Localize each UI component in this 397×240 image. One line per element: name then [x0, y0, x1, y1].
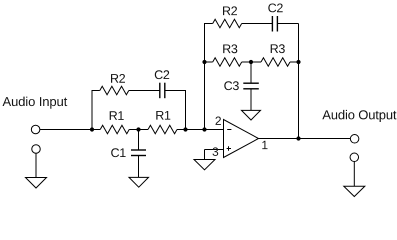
ground: below C1	[129, 177, 149, 187]
value label C1	[111, 148, 125, 157]
resistor R1 (first)	[100, 125, 129, 133]
wire: input terminal to node at R2/R1 left (net IN)	[40, 129, 100, 131]
ground: output side	[344, 186, 365, 196]
label: Audio Output	[322, 110, 396, 122]
wire: node E to R3a	[205, 61, 213, 63]
value label C2 (left loop)	[155, 70, 169, 79]
wire: feedback loop right vertical down to output node	[298, 24, 300, 139]
wire: R3b to node G	[290, 61, 299, 63]
op-amp U1	[224, 120, 259, 158]
capacitor C2 (feedback loop)	[272, 16, 277, 32]
resistor R1 (second)	[148, 125, 177, 133]
wire: node F down to C3	[250, 62, 252, 83]
node D: junction at op-amp pin 2 with feedback network	[202, 127, 206, 131]
value label R1 (second)	[156, 111, 170, 120]
wire: C2 right plate to loop2 top right corner	[277, 23, 298, 25]
wire: pin 3 down to ground	[204, 150, 206, 160]
ground: below C3	[242, 110, 261, 120]
output terminal J2	[350, 135, 359, 144]
ground return terminal (output side)	[350, 153, 359, 162]
op-amp minus sign (inverting input marker)	[227, 129, 231, 131]
input terminal J1	[31, 125, 40, 134]
wire: output ground terminal down	[353, 162, 355, 187]
ground return terminal (input side)	[32, 145, 41, 154]
node H: junction of output wire and feedback right vertical	[296, 136, 300, 140]
resistor R2 (feedback loop)	[213, 19, 242, 27]
wire: R1 to R1 through node B	[129, 129, 148, 131]
wire: C2 right plate to loop1 right corner	[165, 90, 186, 92]
wire: C1 bottom plate to ground	[138, 156, 140, 178]
resistor R2 (left loop)	[100, 86, 129, 94]
wire: R3a to R3b through node F	[242, 61, 261, 63]
node G: junction of R3b right and loop right vertical	[296, 60, 300, 64]
node F: junction between R3 pair and C3	[249, 60, 253, 64]
capacitor C3	[243, 83, 258, 89]
wire: loop1 top, node A up-corner to R2 left	[92, 90, 100, 92]
ground: at op-amp non-inverting input	[194, 160, 215, 170]
capacitor C2 (left loop)	[160, 83, 165, 99]
wire: right vertical of R2/C2 bypass loop	[185, 90, 187, 130]
wire: R2 right to C2 left plate (top loop)	[242, 23, 273, 25]
ground: input side	[26, 178, 47, 189]
value label R2 (feedback loop)	[223, 6, 237, 15]
wire: op-amp pin 3 stub	[205, 149, 224, 151]
pin number 2 (inverting input)	[216, 117, 221, 125]
wire: op-amp output to output terminal (net OUT)	[259, 138, 351, 140]
pin number 1 (output)	[262, 141, 267, 149]
wire: feedback loop left vertical (node D up to R3 wire and top)	[204, 24, 206, 130]
value label R3 (first)	[223, 44, 237, 53]
resistor R3 (first)	[213, 58, 242, 66]
wire: R2 right to C2 left plate	[129, 90, 160, 92]
wire: C3 bottom plate to ground	[250, 89, 252, 111]
value label R3 (second)	[271, 44, 285, 53]
wire: C1 top, node B down to C1 plate	[138, 130, 140, 151]
value label C3	[224, 81, 239, 90]
node E: junction of R3a left and loop verticals	[202, 60, 206, 64]
label: Audio Input	[3, 97, 68, 109]
wire: loop2 top, left corner to R2	[204, 23, 213, 25]
node A: junction of input wire, R2a and R1a	[90, 127, 94, 131]
value label R2 (left loop)	[111, 74, 125, 83]
value label R1 (first)	[110, 111, 124, 120]
value label C2 (feedback loop)	[268, 4, 282, 13]
node B: junction of R1-R1 and C1	[136, 127, 140, 131]
resistor R3 (second)	[261, 58, 290, 66]
wire: node C to op-amp inverting input (pin 2 net)	[177, 129, 224, 131]
pin number 3 (non-inverting input)	[213, 147, 219, 156]
capacitor C1	[131, 150, 146, 156]
node C: junction of R1b, loop1 right vertical	[183, 127, 187, 131]
wire: left vertical of R2/C2 bypass loop	[91, 91, 93, 130]
op-amp plus sign (non-inverting input marker)	[227, 148, 231, 150]
wire: input ground terminal down	[35, 153, 37, 177]
